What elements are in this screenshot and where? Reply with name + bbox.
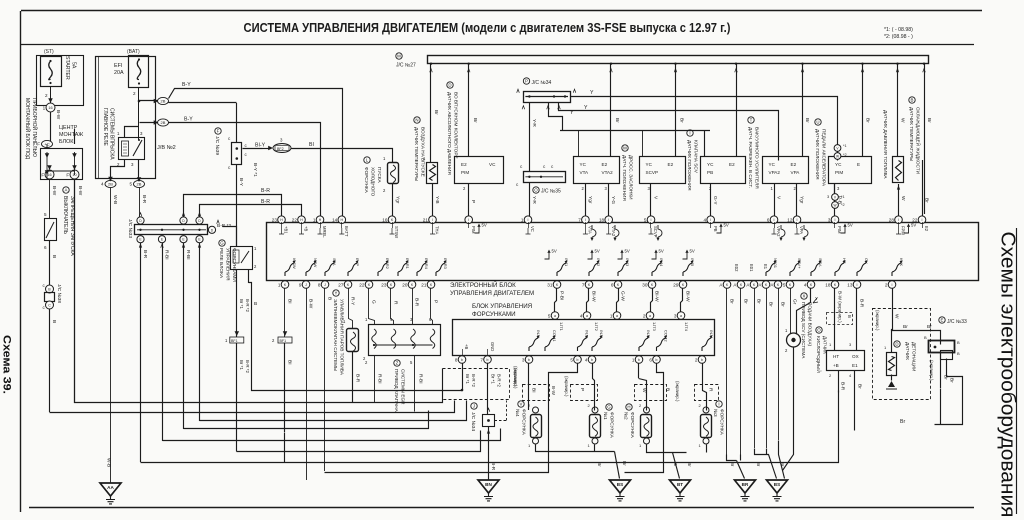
svg-text:B-R: B-R [142,250,148,259]
svg-text:F: F [66,172,69,177]
svg-text:ХОЛОДНОГО: ХОЛОДНОГО [371,167,376,197]
svg-text:BI-Y: BI-Y [255,143,266,149]
svg-text:3: 3 [522,357,525,362]
svg-text:ПРИБОРНОЙ ПАНЕЛЬЮ: ПРИБОРНОЙ ПАНЕЛЬЮ [31,98,39,157]
svg-text:F: F [217,129,220,134]
svg-text:INJ1: INJ1 [564,258,569,267]
svg-text:E2: E2 [602,162,608,167]
svg-text:BI-W: BI-W [654,291,660,302]
svg-text:a: a [586,314,588,318]
svg-text:14: 14 [332,218,338,223]
svg-text:ФОРСУНКА: ФОРСУНКА [364,167,369,194]
svg-text:J/C №35: J/C №35 [541,189,561,195]
svg-text:(BAT): (BAT) [127,49,140,55]
svg-text:FPM: FPM [901,226,906,235]
svg-text:5: 5 [44,212,47,217]
svg-text:ОХЛАЖДАЮЩЕЙ ЖИДКОСТИ: ОХЛАЖДАЮЩЕЙ ЖИДКОСТИ [916,107,923,174]
svg-text:3: 3 [828,218,831,223]
svg-text:Br: Br [924,198,930,203]
svg-text:J/C №34: J/C №34 [532,80,552,86]
svg-text:W-B: W-B [112,195,118,204]
svg-text:(экранир.): (экранир.) [513,368,518,389]
svg-text:BR: BR [742,482,749,487]
svg-text:I: I [585,218,586,222]
svg-text:I: I [528,218,529,222]
svg-text:B: B [327,297,333,300]
svg-text:22: 22 [292,218,298,223]
svg-text:VPA: VPA [799,226,804,234]
svg-text:УПРАВЛЕНИЯ ДВИГАТЕЛЕМ: УПРАВЛЕНИЯ ДВИГАТЕЛЕМ [450,290,534,297]
svg-text:№2: №2 [624,412,629,420]
svg-text:I: I [797,218,798,222]
svg-text:I: I [651,218,652,222]
svg-text:(ST): (ST) [44,49,54,55]
svg-text:ЦЕНТР: ЦЕНТР [59,125,78,131]
svg-text:B-W: B-W [551,386,556,396]
svg-text:2: 2 [885,282,888,287]
svg-text:B-W: B-W [51,186,57,196]
svg-text:8: 8 [455,357,458,362]
svg-text:УПРАВЛЕНИЯ: УПРАВЛЕНИЯ [225,248,231,281]
svg-text:E2: E2 [791,162,797,167]
svg-text:PB: PB [713,226,718,232]
svg-text:A: A [65,188,68,193]
svg-text:Y: Y [335,291,338,296]
svg-text:2: 2 [45,93,48,98]
svg-text:Br *1: Br *1 [239,299,244,309]
svg-text:YC: YC [580,162,587,167]
svg-text:Br *1: Br *1 [491,374,496,384]
svg-text:B-R *2: B-R *2 [471,374,476,387]
svg-text:+B1: +B1 [284,226,289,234]
svg-text:INJ3: INJ3 [625,258,630,267]
svg-text:B: B [51,255,57,258]
svg-text:R-Y: R-Y [350,297,356,306]
svg-text:B-Y: B-Y [238,178,244,187]
svg-text:MREL: MREL [322,226,327,238]
svg-text:1: 1 [278,282,281,287]
svg-text:X: X [803,294,806,299]
svg-text:BF1: BF1 [280,339,287,343]
svg-text:B: B [957,340,960,345]
svg-text:I: I [432,218,433,222]
svg-text:Ygr: Ygr [799,196,805,204]
svg-text:YC: YC [835,162,842,167]
svg-text:СИСТЕМЫ ВПРЫСКА: СИСТЕМЫ ВПРЫСКА [109,108,115,160]
svg-text:a: a [616,314,618,318]
svg-text:b: b [656,358,658,362]
svg-text:*1: ( - 08.98): *1: ( - 08.98) [884,27,913,33]
svg-text:COM1: COM1 [552,330,557,342]
svg-text:*2: *2 [841,203,845,207]
svg-text:VTA: VTA [580,170,590,175]
svg-text:5: 5 [783,282,786,287]
svg-text:20A: 20A [114,70,124,76]
svg-text:*2: (08.98 - ): *2: (08.98 - ) [884,34,913,40]
svg-text:СИСТЕМА УПРАВЛЕНИЯ ДВИГАТЕЛЕМ: СИСТЕМА УПРАВЛЕНИЯ ДВИГАТЕЛЕМ (модели с … [244,20,731,35]
svg-text:№3: №3 [713,409,718,417]
svg-text:21: 21 [421,282,427,287]
svg-text:Y-R: Y-R [531,119,537,127]
svg-text:J/C №33: J/C №33 [127,219,133,238]
svg-text:28: 28 [889,218,895,223]
svg-text:ФОРСУНКА: ФОРСУНКА [630,412,635,439]
svg-text:+B: +B [833,363,839,368]
svg-text:INJ1: INJ1 [585,330,590,339]
svg-text:VTA2: VTA2 [602,170,614,175]
svg-text:1JT4: 1JT4 [684,322,689,332]
svg-text:Z: Z [396,361,399,366]
svg-text:Br: Br [926,118,932,123]
svg-text:1: 1 [43,105,46,110]
svg-text:E: E [941,318,944,323]
svg-text:B: B [254,301,257,307]
svg-text:B-R: B-R [261,199,270,205]
svg-text:G-W: G-W [620,291,626,301]
svg-text:OX: OX [852,354,859,359]
svg-text:Y: Y [584,105,588,111]
svg-text:20: 20 [402,282,408,287]
svg-text:ДАТЧИК ДАВЛЕНИЯ ТОПЛИВА: ДАТЧИК ДАВЛЕНИЯ ТОПЛИВА [883,110,888,179]
svg-text:SCVP: SCVP [653,226,658,238]
svg-text:INJ1: INJ1 [536,330,541,339]
svg-text:B: B [847,315,852,318]
svg-text:2B: 2B [108,182,113,187]
svg-text:STARTER: STARTER [64,56,70,80]
svg-text:STA: STA [332,258,337,266]
svg-text:ВО ВПУСКНОМ КОЛЛЕКТОРЕ: ВО ВПУСКНОМ КОЛЛЕКТОРЕ [454,92,459,159]
svg-text:P: P [433,300,439,303]
svg-text:V: V [520,402,523,407]
svg-text:16: 16 [47,173,51,177]
svg-text:E: E [857,162,860,167]
svg-text:E2: E2 [924,226,929,232]
svg-text:BATT: BATT [344,226,349,237]
svg-text:16: 16 [382,218,388,223]
svg-text:D: D [895,342,898,347]
svg-text:(экранир.): (экранир.) [564,376,569,397]
svg-text:1: 1 [632,357,635,362]
svg-text:EGR4: EGR4 [424,258,429,270]
svg-text:Br: Br [857,384,863,389]
svg-text:THA: THA [435,226,440,235]
svg-text:Gr: Gr [792,299,798,305]
svg-text:SCV-: SCV- [818,258,823,268]
svg-text:SCV+: SCV+ [797,258,802,269]
svg-text:ПРИВОД КЛАПАНА: ПРИВОД КЛАПАНА [394,369,399,413]
svg-text:ДАТЧИК ПОЛОЖЕНИЯ: ДАТЧИК ПОЛОЖЕНИЯ [687,140,692,191]
svg-text:b: b [487,358,489,362]
svg-text:W: W [900,118,906,123]
svg-text:J/C №27: J/C №27 [396,63,416,69]
svg-text:4: 4 [804,282,807,287]
svg-text:PIM: PIM [461,170,469,175]
svg-text:VPA2: VPA2 [776,226,781,237]
svg-text:W: W [836,155,839,159]
svg-text:Br: Br [614,118,620,123]
svg-text:ДАТЧИК ТЕМПЕРАТУРЫ: ДАТЧИК ТЕМПЕРАТУРЫ [909,107,914,161]
svg-text:4: 4 [101,182,104,187]
svg-text:6: 6 [44,245,47,250]
svg-text:NSW: NSW [313,258,318,268]
svg-text:7: 7 [480,357,483,362]
svg-text:B-R: B-R [859,299,865,308]
svg-text:B-R *2: B-R *2 [497,374,502,387]
svg-text:(экранир.): (экранир.) [929,360,934,381]
svg-text:O: O [817,328,821,333]
svg-text:BI: BI [287,299,293,304]
svg-text:E2: E2 [729,162,735,167]
svg-text:Ygr: Ygr [395,196,401,204]
svg-text:a: a [680,314,682,318]
svg-text:BI: BI [287,360,293,365]
svg-text:B: B [957,351,960,356]
svg-text:18: 18 [825,282,831,287]
svg-text:B: B [51,320,57,323]
svg-text:(экранир.): (экранир.) [875,310,880,331]
svg-text:EVP: EVP [355,258,360,266]
svg-text:R: R [393,301,399,305]
svg-text:ПЕДАЛИ АКСЕЛЕРАТОРА: ПЕДАЛИ АКСЕЛЕРАТОРА [822,129,827,187]
svg-text:J: J [305,283,307,287]
svg-text:Br: Br [780,302,786,307]
svg-text:27: 27 [338,282,344,287]
svg-text:B-R: B-R [261,188,270,194]
svg-text:30: 30 [642,282,648,287]
svg-text:5V: 5V [848,223,853,228]
svg-text:Y: Y [590,90,594,96]
svg-text:BT: BT [677,482,683,487]
svg-text:5: 5 [129,182,132,187]
svg-text:a: a [649,314,651,318]
svg-text:B-W: B-W [55,110,61,120]
svg-text:b: b [638,358,640,362]
svg-text:31: 31 [547,282,553,287]
svg-text:КИСЛОРОДНЫЙ: КИСЛОРОДНЫЙ [816,336,823,373]
svg-text:ДАТЧ. РАЗРЕЖЕН. В СИСТ.: ДАТЧ. РАЗРЕЖЕН. В СИСТ. [748,127,753,188]
svg-text:YC: YC [769,162,776,167]
svg-text:E2: E2 [668,162,674,167]
svg-text:BN: BN [485,482,492,487]
svg-text:B-R *2: B-R *2 [245,360,250,373]
svg-text:23: 23 [381,282,387,287]
svg-text:b: b [701,358,703,362]
svg-text:INJ5: INJ5 [690,258,695,267]
svg-text:B: B [924,335,927,340]
svg-text:1JT1: 1JT1 [559,322,564,332]
svg-text:O: O [534,188,538,193]
svg-text:ФОРСУНКА: ФОРСУНКА [720,409,725,436]
svg-text:I: I [857,283,858,287]
svg-text:P: P [579,388,585,391]
svg-text:*1: *1 [841,195,845,199]
svg-text:Br: Br [949,378,955,383]
svg-text:B: B [665,388,671,391]
svg-text:EGR1: EGR1 [405,258,410,270]
svg-text:B-R: B-R [840,382,846,391]
svg-text:№1: №1 [603,412,608,420]
svg-text:4: 4 [704,218,707,223]
svg-text:BS: BS [774,482,780,487]
svg-text:BS: BS [617,482,623,487]
svg-text:J: J [324,283,326,287]
svg-text:R-BI: R-BI [418,374,424,384]
svg-text:12: 12 [787,218,793,223]
svg-text:BI: BI [531,388,537,393]
svg-text:I: I [922,218,923,222]
svg-text:5: 5 [570,357,573,362]
svg-text:ПУСКА: ПУСКА [377,167,382,183]
svg-text:BF1: BF1 [231,339,238,343]
svg-text:Br *1: Br *1 [465,374,470,384]
svg-text:Ygr: Ygr [587,196,593,204]
svg-text:Br: Br [729,299,735,304]
svg-text:ДЕТОНАЦИИ: ДЕТОНАЦИИ [912,342,917,371]
svg-text:Br: Br [943,375,949,380]
svg-text:Y: Y [570,110,574,116]
svg-text:INJ3: INJ3 [646,330,651,339]
svg-text:VC: VC [530,226,535,232]
svg-text:РЕЛЕ БЛОКА: РЕЛЕ БЛОКА [218,248,224,279]
svg-text:NE01: NE01 [773,258,778,269]
svg-text:1: 1 [521,218,524,223]
svg-text:ПОДАЧИ ВОЗДУХА): ПОДАЧИ ВОЗДУХА) [808,302,813,347]
svg-text:Br *1: Br *1 [239,360,244,370]
svg-text:7: 7 [578,218,581,223]
svg-text:Y-R: Y-R [531,196,537,204]
svg-text:ВОЗДУХА НА ВПУСКЕ: ВОЗДУХА НА ВПУСКЕ [421,127,426,177]
svg-text:Br: Br [804,118,810,123]
svg-text:EGR3: EGR3 [443,258,448,270]
svg-text:2B: 2B [137,182,142,187]
svg-text:R-BI: R-BI [164,250,170,260]
svg-text:Br: Br [756,299,762,304]
svg-text:ДАТЧ. ПОЛОЖЕНИЯ: ДАТЧ. ПОЛОЖЕНИЯ [622,155,627,201]
svg-text:G: G [220,241,224,246]
svg-text:Y-G: Y-G [610,196,616,204]
svg-text:R: R [708,388,714,392]
svg-text:9: 9 [299,282,302,287]
svg-text:4: 4 [580,313,583,318]
svg-text:5V: 5V [724,223,729,228]
svg-text:GND: GND [490,342,495,351]
svg-text:ДАТЧИК АБСОЛЮТНОГО ДАВЛЕНИЯ: ДАТЧИК АБСОЛЮТНОГО ДАВЛЕНИЯ [447,92,452,175]
svg-text:МОНТАЖНЫЙ БЛОК ПОД: МОНТАЖНЫЙ БЛОК ПОД [24,98,32,160]
svg-text:I: I [468,218,469,222]
svg-text:G-Y: G-Y [712,196,718,205]
svg-text:ФОРСУНКАМИ: ФОРСУНКАМИ [472,311,516,318]
svg-text:МОНТАЖ: МОНТАЖ [59,132,83,138]
svg-text:13: 13 [847,282,853,287]
svg-text:W: W [833,204,836,208]
svg-text:COM2: COM2 [664,330,669,342]
svg-text:ВЫКЛЮЧАТЕЛЬ: ВЫКЛЮЧАТЕЛЬ [62,196,68,235]
svg-text:Br: Br [621,461,627,466]
svg-text:IGSW: IGSW [292,258,297,269]
svg-text:PIM: PIM [835,170,843,175]
svg-text:ДАТЧИК ТЕМПЕРАТУРЫ: ДАТЧИК ТЕМПЕРАТУРЫ [414,127,419,181]
svg-text:BI-W: BI-W [591,291,597,302]
svg-text:1: 1 [313,218,316,223]
svg-text:1JT3: 1JT3 [652,322,657,332]
svg-text:I: I [710,218,711,222]
svg-text:2B: 2B [161,120,166,125]
svg-text:5V: 5V [690,249,695,254]
svg-text:B: B [911,98,914,103]
svg-text:18: 18 [599,218,605,223]
svg-text:BI-W: BI-W [685,291,691,302]
svg-text:VC: VC [489,162,496,167]
svg-text:Br: Br [743,299,749,304]
svg-text:SCVP: SCVP [646,170,659,175]
svg-text:5: 5 [548,313,551,318]
svg-text:EFI: EFI [114,63,122,69]
svg-text:OX: OX [864,258,869,264]
svg-text:INJ4: INJ4 [659,258,664,267]
svg-text:J/C №33: J/C №33 [947,319,967,325]
svg-text:INJ2: INJ2 [599,330,604,339]
svg-text:R-BI: R-BI [185,250,191,260]
svg-text:W-B: W-B [106,458,112,467]
svg-text:B-R: B-R [355,374,361,383]
svg-text:ВАКУУМНОГО УСИЛИТЕЛЯ: ВАКУУМНОГО УСИЛИТЕЛЯ [755,127,760,189]
svg-text:ДАТЧИК: ДАТЧИК [905,342,910,360]
svg-text:G: G [607,405,611,410]
svg-text:4: 4 [585,357,588,362]
svg-text:F: F [41,172,44,177]
svg-text:5V: 5V [595,249,600,254]
svg-text:Br: Br [768,302,774,307]
svg-text:E01: E01 [749,264,754,272]
svg-text:J/C №34: J/C №34 [470,412,476,431]
svg-text:W: W [894,314,900,319]
svg-text:6: 6 [611,282,614,287]
svg-text:H: H [627,405,630,410]
svg-text:J/C №39: J/C №39 [214,136,220,155]
svg-text:BF2: BF2 [277,147,284,151]
svg-text:U: U [816,120,819,125]
svg-text:3: 3 [674,313,677,318]
svg-text:16: 16 [48,106,52,110]
svg-text:INJ2: INJ2 [596,258,601,267]
svg-text:YC: YC [707,162,714,167]
svg-text:b: b [591,358,593,362]
svg-text:Y-B: Y-B [434,196,440,204]
svg-text:B-W: B-W [77,186,83,196]
svg-text:VPA: VPA [791,170,801,175]
svg-text:HT: HT [842,258,847,264]
svg-text:*2: *2 [843,153,847,157]
svg-text:ГЛАВНОЕ РЕЛЕ: ГЛАВНОЕ РЕЛЕ [102,108,108,147]
svg-text:E02: E02 [734,264,739,272]
svg-text:УЛАВЛИВАНИЯ ПАРОВ ТОПЛИВА: УЛАВЛИВАНИЯ ПАРОВ ТОПЛИВА [340,299,345,376]
svg-text:Br: Br [927,324,932,330]
svg-text:J/B №2: J/B №2 [157,145,176,151]
svg-text:M: M [623,146,627,151]
svg-text:5V: 5V [659,249,664,254]
svg-text:ФОРСУНКА: ФОРСУНКА [522,409,527,436]
svg-text:КЛАПАНА SCV: КЛАПАНА SCV [694,140,699,174]
svg-text:+B: +B [464,344,469,349]
svg-text:P: P [470,200,476,203]
svg-text:23: 23 [272,218,278,223]
svg-text:Br: Br [679,118,685,123]
svg-text:EGR2: EGR2 [385,258,390,270]
svg-text:(экранир.): (экранир.) [675,381,680,402]
svg-text:Схема 39.: Схема 39. [1,335,13,394]
svg-text:БЛОК: БЛОК [59,139,74,145]
svg-text:b: b [461,358,463,362]
